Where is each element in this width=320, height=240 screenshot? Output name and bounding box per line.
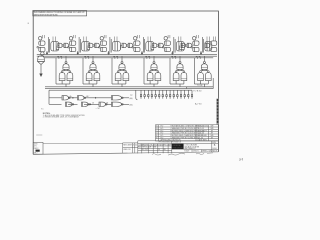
svg-text:A-7 50: A-7 50 <box>195 103 202 106</box>
AND gate B4a <box>147 73 153 81</box>
buffer G5b <box>187 43 192 48</box>
junction dot FF3 <box>108 53 109 54</box>
flip-flop FF2 set input inverter <box>69 37 72 40</box>
flip-flop FF3 output gate cluster <box>112 42 120 51</box>
wire bay bracket 1 <box>56 58 62 84</box>
wire bus drop to gate group 3 <box>121 56 123 61</box>
signature scribbles <box>152 153 213 155</box>
flip-flop FF1 cluster input ticks <box>53 37 55 42</box>
output bubble C2 <box>84 97 86 99</box>
scan speck <box>28 23 29 24</box>
diode CR6 <box>159 90 160 99</box>
svg-text:10904: 10904 <box>212 148 216 150</box>
wire bay bracket 4 <box>144 58 150 84</box>
flip-flop FF4 set input inverter <box>134 37 137 40</box>
svg-text:WE 10-4: WE 10-4 <box>142 147 148 149</box>
svg-text:PRECISION: PRECISION <box>173 148 184 150</box>
flip-flop FF2 output gate cluster <box>82 42 90 51</box>
wire bus: carry bus line 2 <box>37 55 217 57</box>
flip-flop FF4 latch gate B <box>134 47 140 51</box>
flip-flop FF4 trigger input ticks <box>138 35 140 38</box>
inverter G1a output bubble <box>62 45 64 47</box>
flip-flop FF1 reset input bubble <box>37 46 39 48</box>
output bubble C3 <box>122 97 124 99</box>
flip-flop FF6 output gate cluster <box>205 42 212 51</box>
wire bus tick marks bay 4 <box>145 57 149 59</box>
wire FF2 cross-couple verticals <box>79 37 80 53</box>
flip-flop FF5 output gate cluster <box>176 42 184 51</box>
AND gate A4 <box>151 64 157 70</box>
AND gate B4b <box>155 73 161 81</box>
gate B6b input circle <box>207 71 209 73</box>
page number 2-7 <box>239 157 243 161</box>
wire FF5 to FF6 <box>180 46 193 50</box>
flip-flop FF5 cluster input ticks <box>179 37 181 42</box>
flip-flop FF6 set input inverter <box>193 37 196 40</box>
svg-text:1090: 1090 <box>34 144 38 146</box>
wire bus: carry bus line 1 <box>37 54 217 56</box>
output bubble D1 <box>72 104 74 106</box>
output bubble D4 <box>122 104 124 106</box>
node label TO B 50 <box>193 90 202 92</box>
junction dot FF2 <box>77 53 78 54</box>
flip-flop FF6 reset input bubble <box>191 46 193 48</box>
diode CR1 <box>140 90 141 99</box>
wire A6 outputs to pair <box>201 69 209 70</box>
output gate D2 (row 2) <box>82 102 89 106</box>
flip-flop FF6 trigger input ticks <box>197 35 199 38</box>
diode CR2 <box>144 90 145 99</box>
node label Tx <box>41 108 44 110</box>
wire FF drops to bus <box>47 51 201 55</box>
manufacturer logo <box>172 144 184 150</box>
wire FF5 cross-couple verticals <box>174 37 175 53</box>
AND gate B5b <box>181 73 187 81</box>
svg-text:1090471: 1090471 <box>193 151 199 153</box>
flip-flop FF5 trigger input ticks <box>168 35 170 38</box>
wire FF3 to FF4 <box>120 46 133 50</box>
output gate C3 (row 1) <box>112 96 122 100</box>
wire A1 outputs to pair <box>62 69 70 70</box>
buffer G2b <box>95 43 100 48</box>
flip-flop FF3 set input inverter <box>100 37 103 40</box>
flip-flop FF1 latch gate B <box>39 47 45 51</box>
node label mid row 2 <box>95 108 101 110</box>
output gate C1 (row 1) <box>62 96 69 100</box>
output gate D3 (row 2) <box>99 102 106 106</box>
inverter G2a output bubble <box>93 45 95 47</box>
inverter G4a output bubble <box>157 45 159 47</box>
wire FF4 cross-couple verticals <box>143 37 144 53</box>
svg-text:EC 11-2: EC 11-2 <box>142 149 148 151</box>
AND gate A5 <box>177 64 183 70</box>
flip-flop FF6 latch gate A <box>193 41 199 45</box>
AND gate B5a <box>173 73 179 81</box>
flip-flop FF2 cluster input ticks <box>84 37 86 42</box>
wire row1 connections with arrows <box>68 97 129 99</box>
AND gate A2 <box>90 64 96 70</box>
inverter G1a <box>58 43 62 48</box>
flip-flop FF4 reset input bubble <box>132 46 134 48</box>
gate group 6 input circle <box>203 61 205 63</box>
wire bus tick marks bay 1 <box>57 57 61 59</box>
diode CR13 <box>184 90 185 99</box>
wire bus: lower distribution line 1 <box>45 86 213 88</box>
clock driver gate U1 <box>38 56 45 62</box>
gate B6a input circle <box>200 71 202 73</box>
flip-flop FF1 latch gate A <box>39 41 45 45</box>
wire bus drop to gate group 5 <box>179 56 181 61</box>
node label TO 4F <box>197 85 203 87</box>
flip-flop FF4 cluster input ticks <box>148 37 150 42</box>
diode CR14 <box>188 90 189 99</box>
wire A2 outputs to pair <box>89 69 97 70</box>
diode array left bracket <box>136 90 138 100</box>
schematic notes text <box>43 113 86 119</box>
wire A3 outputs to pair <box>118 69 126 70</box>
wire bus tick marks bay 6 <box>196 57 200 59</box>
flip-flop FF5 reset input bubble <box>162 46 164 48</box>
gate group 1 input circle <box>65 61 67 63</box>
buffer G1b <box>64 43 69 48</box>
AND gate B2b <box>94 73 100 81</box>
diode CR12 <box>180 90 181 99</box>
wire group 6 outputs to lower bus <box>201 81 209 87</box>
wire group 3 outputs to lower bus <box>118 81 126 87</box>
svg-text:471: 471 <box>34 146 37 148</box>
svg-text:REV F: REV F <box>212 151 217 153</box>
wire FF4 to FF5 <box>151 46 164 50</box>
inverter G3a <box>122 43 126 48</box>
AND gate B3b <box>123 73 129 81</box>
flip-flop FF2 latch gate A <box>70 41 76 45</box>
node label TP <box>130 95 133 97</box>
clock driver input circle <box>41 52 44 55</box>
wire group 2 outputs to lower bus <box>89 81 97 87</box>
diode CR7 <box>162 90 163 99</box>
flip-flop FF3 reset input bubble <box>99 46 101 48</box>
junction dot FF4 <box>141 53 142 54</box>
gate B2b input circle <box>96 71 98 73</box>
svg-text:SH 2: SH 2 <box>34 153 38 155</box>
svg-text:SHEET 2 OF 7: SHEET 2 OF 7 <box>202 151 212 153</box>
gate B1b input circle <box>69 71 71 73</box>
flip-flop FF1 trigger input ticks <box>43 35 45 38</box>
microfilm index box <box>33 142 43 154</box>
wire FF6 cross-couple verticals <box>202 37 203 53</box>
bottom strip top line <box>43 143 123 145</box>
gate group 5 input circle <box>179 61 181 63</box>
gate B5b input circle <box>183 71 185 73</box>
node label output row 2 <box>130 105 133 107</box>
inverter G5a output bubble <box>185 45 187 47</box>
svg-text:(A): (A) <box>130 97 133 100</box>
wire bus drop to gate group 1 <box>65 56 67 61</box>
flip-flop FF2 reset input bubble <box>68 46 70 48</box>
wire bus tick marks bay 2 <box>84 57 88 59</box>
flip-flop FF5 set input inverter <box>164 37 167 40</box>
flip-flop FF3 trigger input ticks <box>104 35 106 38</box>
flip-flop FF2 trigger input ticks <box>73 35 75 38</box>
flip-flop FF5 latch gate A <box>164 41 170 45</box>
note box: general notes text <box>33 11 87 17</box>
AND gate A3 <box>119 64 125 70</box>
buffer G4b <box>159 43 164 48</box>
flip-flop FF1 output gate cluster <box>51 42 59 51</box>
svg-text:2. RESISTORS ARE 1/4W, 5% TOLE: 2. RESISTORS ARE 1/4W, 5% TOLERANCE <box>43 116 80 119</box>
output gate D1 (row 2) <box>66 102 73 106</box>
diode CR10 <box>173 90 174 99</box>
application block <box>123 143 138 153</box>
output gate C2 (row 1) <box>78 96 85 100</box>
wire input bracket for output gates <box>49 90 62 104</box>
wire A5 outputs to pair <box>176 69 184 70</box>
flip-flop FF2 latch gate B <box>70 47 76 51</box>
svg-text:→ 5C: → 5C <box>95 108 101 110</box>
gate B3a input circle <box>117 71 119 73</box>
faint artifact line <box>36 134 42 136</box>
gate B3b input circle <box>125 71 127 73</box>
gate B4a input circle <box>149 71 151 73</box>
buffer G3b <box>128 43 133 48</box>
wire FF1 to FF2 <box>56 46 69 50</box>
AND gate A1 <box>63 64 69 70</box>
svg-text:SEE NOTES FOR EXCEPTIONS: SEE NOTES FOR EXCEPTIONS <box>34 14 59 16</box>
inverter G2a <box>89 43 93 48</box>
ground arrow under clock driver <box>39 74 42 78</box>
vertical form number strip <box>217 99 219 125</box>
inverter G4a <box>153 43 157 48</box>
gate B5a input circle <box>175 71 177 73</box>
svg-text:04: 04 <box>135 144 137 146</box>
wire bus tick marks bay 3 <box>113 57 117 59</box>
end ticks <box>214 37 216 41</box>
flip-flop FF1 set input inverter <box>39 37 42 40</box>
wire bay bracket 2 <box>83 58 89 84</box>
AND gate B6a <box>198 73 204 81</box>
svg-text:(B): (B) <box>130 105 133 107</box>
gate B4b input circle <box>157 71 159 73</box>
wire bay bracket 6 <box>194 58 200 84</box>
wire FF1 cross-couple verticals <box>48 37 49 53</box>
node label A-7 50 <box>195 103 202 106</box>
AND gate B1a <box>59 73 65 81</box>
diode CR8 <box>166 90 167 99</box>
svg-text:REV F: REV F <box>34 148 39 150</box>
AND gate B1b <box>67 73 73 81</box>
wire bus tick marks bay 5 <box>171 57 175 59</box>
wire FF2 to FF3 <box>87 46 100 50</box>
wire group 1 outputs to lower bus <box>62 81 70 87</box>
junction dot FF5 <box>172 53 173 54</box>
flip-flop FF3 latch gate B <box>100 47 106 51</box>
diode CR4 <box>151 90 152 99</box>
wire FF3 cross-couple verticals <box>110 37 111 53</box>
diode CR5 <box>155 90 156 99</box>
output bubble D2 <box>88 104 90 106</box>
svg-text:DL: DL <box>158 149 160 151</box>
wire right edge vertical <box>212 78 214 89</box>
diode CR3 <box>148 90 149 99</box>
wire bay bracket 3 <box>112 58 118 84</box>
end buffer G7 <box>205 43 210 48</box>
inverter G5a <box>181 43 185 48</box>
flip-flop FF4 latch gate A <box>134 41 140 45</box>
wire group 5 outputs to lower bus <box>176 81 184 87</box>
wire label smudges between output gates <box>70 95 109 105</box>
title block <box>138 141 219 154</box>
AND gate B3a <box>115 73 121 81</box>
output bubble D3 <box>106 104 108 106</box>
wire bus drop to gate group 2 <box>92 56 94 61</box>
flip-flop FF3 latch gate A <box>100 41 106 45</box>
wire group 4 outputs to lower bus <box>150 81 158 87</box>
wire bus: carry bus line 3 <box>44 57 213 59</box>
gate B2a input circle <box>88 71 90 73</box>
gate group 2 input circle <box>92 61 94 63</box>
wire bus drop to gate group 6 <box>203 56 205 61</box>
wire to right border upper <box>187 87 212 89</box>
node label output row 1 <box>130 97 133 100</box>
junction dot FF6 <box>200 53 201 54</box>
inverter G3a output bubble <box>126 45 128 47</box>
svg-text:2-7: 2-7 <box>239 157 243 161</box>
output gate D4 (row 2) <box>112 102 122 106</box>
gate B1a input circle <box>61 71 63 73</box>
flip-flop FF5 latch gate B <box>164 47 170 51</box>
wire bus: lower distribution line 3 / diode rail <box>49 89 192 91</box>
flip-flop FF3 cluster input ticks <box>115 37 117 42</box>
svg-text:PROJ: PROJ <box>164 144 168 146</box>
svg-text:TO B 50: TO B 50 <box>193 90 202 92</box>
wire A4 outputs to pair <box>150 69 158 70</box>
revision table <box>156 125 219 141</box>
wire bay bracket 5 <box>170 58 176 84</box>
wire row2 connections <box>68 103 129 105</box>
wire bus drop to gate group 4 <box>153 56 155 61</box>
flip-flop FF6 cluster input ticks <box>207 37 209 42</box>
wire bus: lower distribution line 2 <box>45 88 213 90</box>
output bubble C1 <box>69 97 71 99</box>
svg-text:JH: JH <box>149 147 151 149</box>
end latch pair FF7 <box>211 41 217 52</box>
junction dot FF1 <box>46 53 47 54</box>
AND gate B6b <box>205 73 211 81</box>
diode CR15 <box>191 90 192 99</box>
gate group 4 input circle <box>153 61 155 63</box>
flip-flop FF6 latch gate B <box>193 47 199 51</box>
flip-flop FF4 output gate cluster <box>146 42 154 51</box>
gate group 3 input circle <box>121 61 123 63</box>
diode CR11 <box>177 90 178 99</box>
svg-text:USED ON: USED ON <box>123 149 131 151</box>
clock driver funnel <box>38 62 45 74</box>
diode CR9 <box>169 90 170 99</box>
AND gate A6 <box>201 64 207 70</box>
AND gate B2a <box>86 73 92 81</box>
